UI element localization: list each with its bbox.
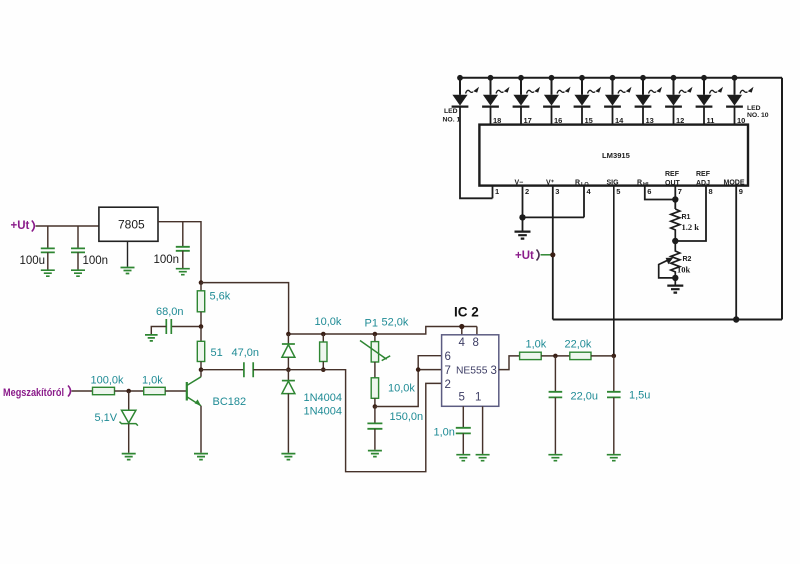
label 10,0k timing: [388, 383, 415, 395]
ground below C3: [176, 269, 190, 275]
op-amp U2 LM3915 body: [479, 125, 748, 186]
capacitor 68,0n: [151, 319, 201, 335]
wire 5V rail to NE555 pins 4/8: [201, 283, 477, 334]
svg-text:2: 2: [445, 379, 451, 391]
wire LED anode top rail: [460, 77, 782, 79]
node Megszakitorol input: [3, 386, 71, 400]
pin 7 stub: [672, 186, 682, 209]
LED D9: [696, 75, 723, 125]
svg-text:MODE: MODE: [724, 180, 745, 187]
label BC182: [213, 396, 247, 408]
wire NE555 pins 4/8 supply stubs: [459, 324, 477, 335]
resistor 10,0k timing: [371, 378, 378, 409]
wire pin2 to pin4: [523, 216, 585, 218]
svg-text:1,0k: 1,0k: [526, 339, 547, 351]
svg-text:7: 7: [445, 365, 451, 377]
label RHI pin6: [637, 180, 649, 189]
ground 150,0n: [368, 451, 382, 457]
label REF ADJ pin8: [696, 171, 711, 187]
svg-text:LM3915: LM3915: [602, 151, 631, 160]
svg-text:1: 1: [475, 392, 481, 404]
pin label 11: [707, 116, 715, 125]
ground pin1: [476, 455, 490, 461]
svg-text:1: 1: [495, 187, 499, 196]
label 1N4004 lower: [304, 406, 343, 418]
svg-text:R: R: [637, 180, 642, 187]
svg-text:51: 51: [211, 347, 223, 359]
svg-text:NO. 1: NO. 1: [443, 117, 461, 124]
svg-text:NE555: NE555: [456, 366, 488, 377]
svg-text:150,0n: 150,0n: [390, 411, 424, 423]
LED D10: [726, 75, 753, 125]
IC U3 NE555 body: [442, 335, 499, 407]
svg-text:100u: 100u: [20, 255, 46, 267]
svg-text:R2: R2: [683, 256, 692, 263]
svg-text:R1: R1: [682, 214, 691, 221]
svg-text:SIG: SIG: [607, 180, 620, 187]
potentiometer R2 10k: [659, 241, 692, 281]
label RLO pin4: [575, 180, 589, 189]
label 5,1V: [95, 412, 118, 424]
ground diodes: [281, 454, 295, 460]
svg-text:8: 8: [709, 187, 713, 196]
LED D4: [543, 75, 570, 125]
ground 22,0u: [548, 455, 562, 461]
label 22,0u: [571, 391, 599, 403]
label IC 2: [454, 305, 479, 320]
pin 6 wire to pin 7: [645, 186, 676, 200]
node diode mid: [286, 367, 291, 372]
diode D12 1N4004 lower: [282, 370, 295, 453]
svg-text:7: 7: [678, 187, 682, 196]
label LED NO.10: [747, 105, 769, 119]
ground 1,5u: [607, 455, 621, 461]
LED D5: [574, 75, 601, 125]
svg-text:6: 6: [445, 351, 451, 363]
label 22,0k: [565, 339, 592, 351]
svg-text:ADJ: ADJ: [696, 180, 710, 187]
label P1 52,0k: [365, 317, 409, 330]
LED D8: [665, 75, 692, 125]
wire threshold node to pin2 loop: [253, 370, 441, 472]
LED D1: [452, 75, 493, 198]
svg-text:BC182: BC182: [213, 396, 247, 408]
pin label 16: [554, 116, 562, 125]
svg-text:5: 5: [459, 392, 465, 404]
resistor 100,0k: [93, 387, 144, 394]
svg-text:REF: REF: [696, 171, 711, 178]
capacitor 1,0n: [456, 406, 471, 454]
label SIG pin5: [607, 180, 620, 187]
wire input +Ut to 7805: [36, 225, 99, 227]
svg-text:68,0n: 68,0n: [156, 306, 184, 318]
svg-text:OUT: OUT: [665, 180, 681, 187]
node collector junction: [199, 367, 204, 372]
svg-text:1,0n: 1,0n: [434, 427, 455, 439]
pin 5 SIG wire down: [614, 186, 621, 356]
svg-text:1,5u: 1,5u: [629, 390, 650, 402]
ground 68,0n: [145, 335, 158, 341]
svg-text:10k: 10k: [677, 265, 691, 275]
svg-text:3: 3: [555, 187, 559, 196]
label 1N4004 upper: [304, 392, 343, 404]
label 68,0n: [156, 306, 184, 318]
label 5,6k: [210, 291, 231, 303]
label MODE pin9: [724, 180, 745, 187]
node R1/R2 junction: [672, 238, 678, 244]
svg-text:100n: 100n: [154, 254, 180, 266]
svg-text:100n: 100n: [83, 255, 109, 267]
pin 2 wire to ground: [519, 186, 529, 231]
pin label 18: [493, 116, 501, 125]
label 1,0k output: [526, 339, 547, 351]
label 47,0n: [232, 347, 260, 359]
svg-text:R: R: [575, 180, 580, 187]
pin label 13: [646, 116, 654, 125]
node 68,0n junction: [199, 324, 204, 329]
diode D11 1N4004 upper: [282, 334, 295, 370]
svg-text:5: 5: [616, 187, 620, 196]
ground below 7805: [121, 268, 135, 274]
svg-text:6: 6: [647, 187, 651, 196]
resistor 51: [197, 327, 204, 370]
regulator U1 7805: [99, 207, 158, 241]
node filter 2 SIG: [612, 354, 617, 359]
label 100u: [20, 255, 46, 267]
zener diode 5,1V: [120, 391, 138, 453]
wire 7805 output: [158, 222, 201, 283]
label 100n (C3): [154, 254, 180, 266]
svg-text:47,0n: 47,0n: [232, 347, 260, 359]
label 1,0k base: [142, 375, 163, 387]
wire 7805 ground pin: [127, 241, 129, 266]
label LED NO.1: [443, 108, 461, 124]
capacitor 22,0u: [549, 356, 563, 454]
pin label 17: [524, 116, 532, 125]
capacitor 150,0n: [367, 407, 382, 450]
resistor 1,0k output: [520, 352, 570, 359]
svg-text:LED: LED: [444, 108, 458, 115]
pin 3 V+ wire down to bottom rail: [553, 186, 560, 320]
LED D3: [513, 75, 540, 125]
LED D7: [635, 75, 662, 125]
label REF OUT pin7: [665, 171, 681, 187]
svg-text:1,0k: 1,0k: [142, 375, 163, 387]
label 1,5u: [629, 390, 650, 402]
ground emitter: [194, 454, 208, 460]
svg-text:7805: 7805: [118, 218, 145, 232]
label 100,0k: [91, 375, 125, 387]
capacitor C3 100n: [176, 222, 190, 268]
node filter 1: [553, 354, 558, 359]
ground below R2: [667, 278, 683, 293]
pin label 10: [737, 116, 745, 125]
svg-text:5,1V: 5,1V: [95, 412, 118, 424]
label 10,0k pullup: [315, 316, 342, 328]
ground below C1: [41, 270, 55, 276]
svg-text:100,0k: 100,0k: [91, 375, 125, 387]
label V+ pin3: [546, 180, 555, 187]
wire pin1 to ground: [482, 406, 484, 454]
resistor 5,6k: [197, 283, 204, 327]
svg-text:22,0u: 22,0u: [571, 391, 599, 403]
svg-text:V⁺: V⁺: [546, 180, 555, 187]
svg-text:52,0k: 52,0k: [382, 317, 409, 329]
svg-text:3: 3: [491, 365, 497, 377]
wire pin3 output: [499, 356, 520, 370]
wire right supply rail: [781, 78, 783, 320]
node +Ut to LM3915 V+: [515, 250, 555, 263]
svg-text:1N4004: 1N4004: [304, 392, 343, 404]
resistor R1 1.2k: [671, 209, 699, 241]
svg-text:LED: LED: [747, 105, 761, 112]
wire RC node to pins 6/7: [375, 356, 442, 407]
ground zener: [122, 454, 136, 460]
node zener junction: [126, 389, 131, 394]
svg-text:1.2 k: 1.2 k: [682, 222, 700, 232]
LED D2: [482, 75, 509, 125]
ground below C2: [71, 270, 85, 276]
label 150,0n: [390, 411, 424, 423]
svg-text:NO. 10: NO. 10: [747, 112, 769, 119]
svg-text:2: 2: [525, 187, 529, 196]
resistor 1,0k base: [144, 387, 187, 394]
pin label 15: [585, 116, 593, 125]
capacitor C1 100u: [41, 226, 55, 270]
resistor 10,0k pullup: [320, 332, 327, 372]
svg-text:REF: REF: [665, 171, 680, 178]
svg-text:+Ut: +Ut: [515, 250, 534, 262]
transistor Q1 BC182: [187, 370, 201, 453]
pin 1 stub: [493, 186, 500, 199]
capacitor C2 100n: [71, 226, 85, 270]
wire collector node to 47,0n: [201, 369, 244, 371]
label V- pin2: [515, 180, 524, 187]
potentiometer P1 52,0k: [360, 332, 390, 378]
svg-text:+Ut: +Ut: [11, 220, 30, 232]
capacitor 47,0n: [244, 362, 289, 377]
pin 4 stub: [584, 186, 592, 218]
ground 1,0n: [456, 455, 470, 461]
svg-text:22,0k: 22,0k: [565, 339, 592, 351]
svg-text:10,0k: 10,0k: [315, 316, 342, 328]
capacitor 1,5u: [607, 356, 621, 454]
pin 9 MODE wire down: [733, 186, 743, 323]
node diode top: [286, 332, 291, 337]
pin label 14: [615, 116, 624, 125]
svg-text:IC 2: IC 2: [454, 305, 479, 320]
svg-text:9: 9: [739, 187, 743, 196]
label 1,0n: [434, 427, 455, 439]
node +Ut supply input: [11, 220, 35, 232]
svg-text:P1: P1: [365, 318, 378, 330]
pin label 12: [676, 116, 684, 125]
svg-text:5,6k: 5,6k: [210, 291, 231, 303]
ground V-: [515, 232, 531, 239]
wire bottom V+ rail: [553, 319, 782, 321]
svg-text:Megszakítóról: Megszakítóról: [3, 387, 64, 399]
resistor 22,0k: [570, 352, 614, 359]
wire input: [72, 390, 93, 392]
svg-text:1N4004: 1N4004: [304, 406, 343, 418]
label 100n (C2): [83, 255, 109, 267]
node 5V rail top: [199, 280, 204, 285]
svg-text:V−: V−: [515, 180, 524, 187]
LED D6: [604, 75, 631, 125]
svg-text:8: 8: [473, 337, 479, 349]
svg-text:10,0k: 10,0k: [388, 383, 415, 395]
svg-text:4: 4: [459, 337, 466, 349]
label 51: [211, 347, 223, 359]
pin 8 wire to R1/R2 junction: [675, 186, 712, 241]
